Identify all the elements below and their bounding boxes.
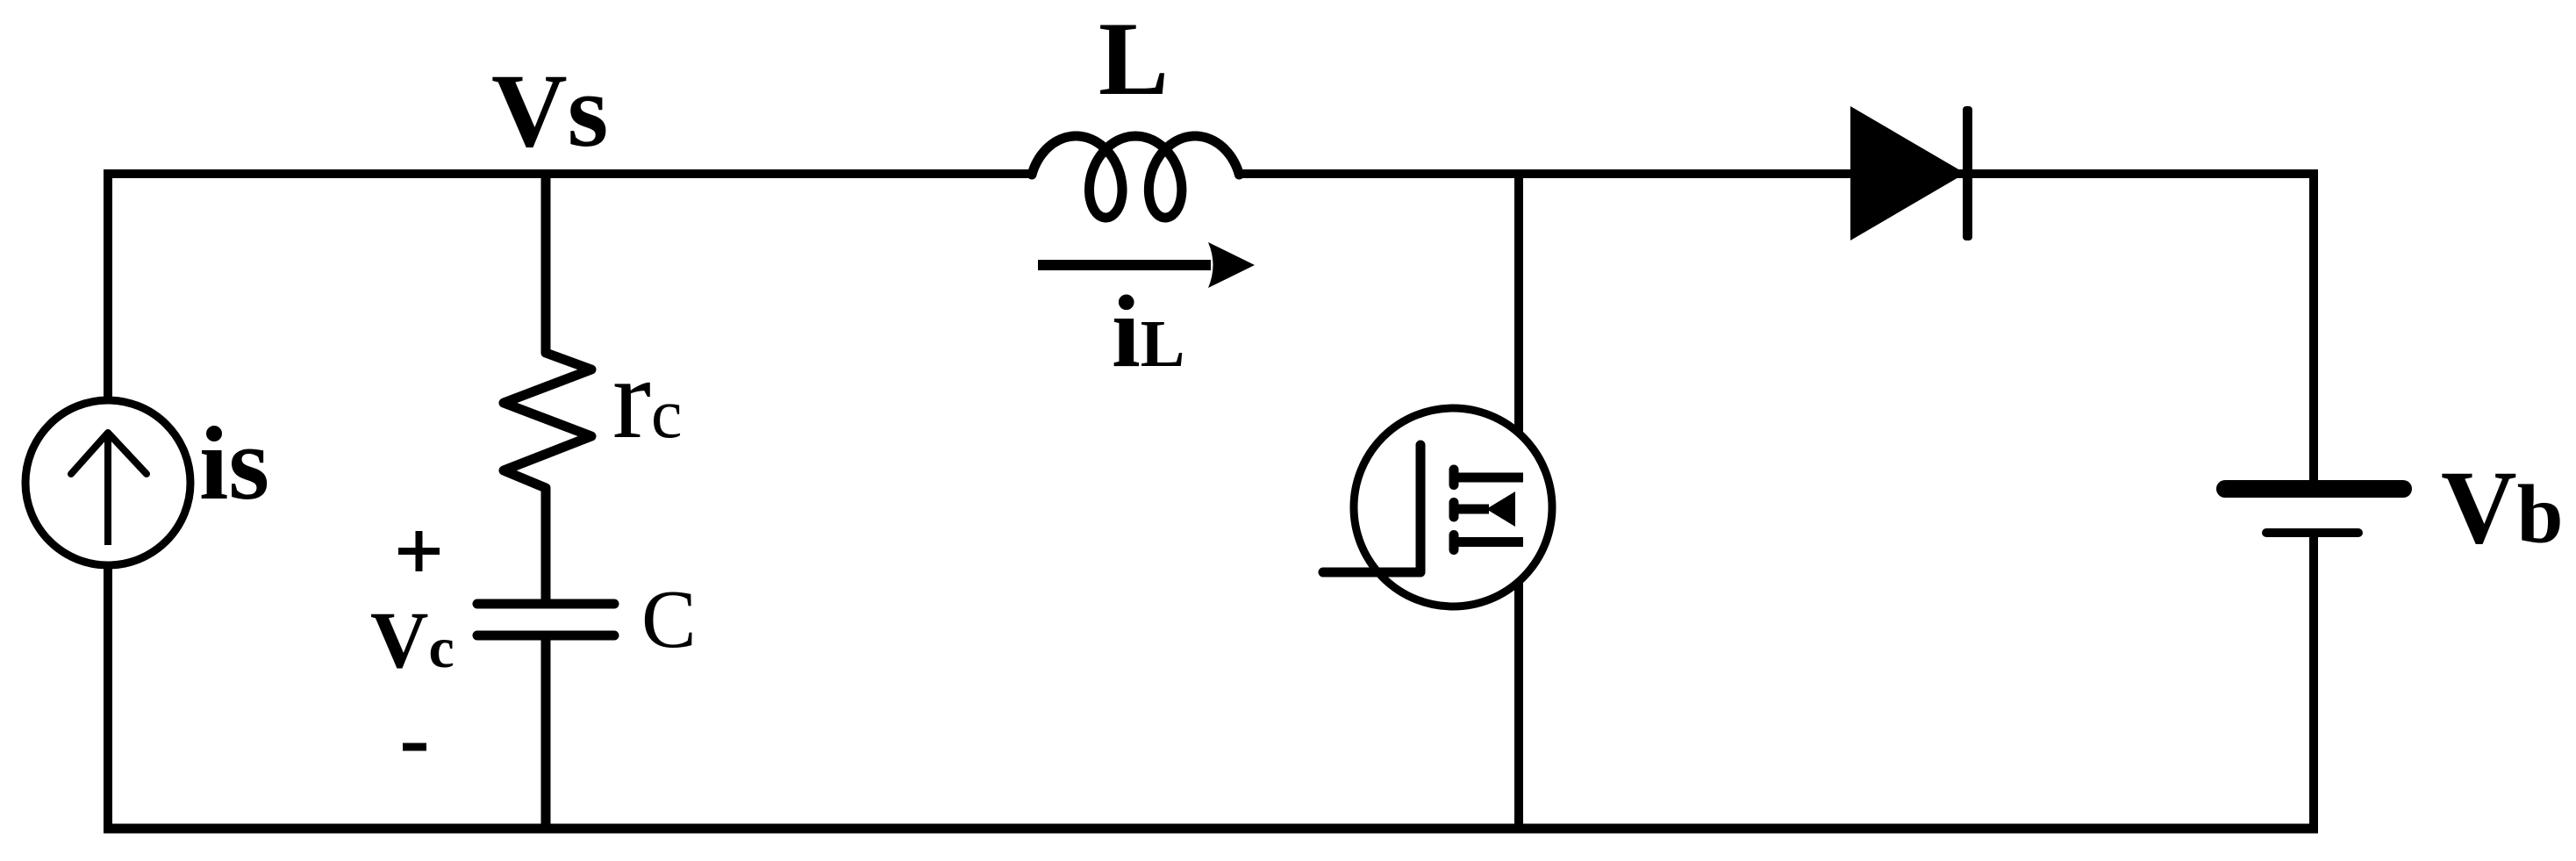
svg-text:Vs: Vs xyxy=(491,52,608,169)
minus sign of Vc xyxy=(403,743,426,751)
svg-text:C: C xyxy=(641,574,697,665)
iL arrowhead xyxy=(1208,242,1255,288)
wire MOSFET source vertical xyxy=(1514,492,1523,829)
MOSFET channel bar middle xyxy=(1449,503,1459,518)
MOSFET body-diode arrowhead xyxy=(1486,491,1515,527)
resistor rc zigzag xyxy=(504,349,591,491)
svg-text:is: is xyxy=(199,405,269,521)
wire resistor to capacitor xyxy=(541,488,551,600)
current source arrowhead chevron xyxy=(71,433,147,474)
wire capacitor to bottom rail xyxy=(541,635,551,829)
battery Vb positive plate xyxy=(2225,480,2403,498)
wire battery branch lower xyxy=(2309,535,2318,833)
capacitor C bottom plate xyxy=(477,631,614,641)
wire left branch lower xyxy=(104,562,112,833)
wire MOSFET drain vertical xyxy=(1514,174,1523,480)
diode D1 triangle xyxy=(1850,106,1965,240)
wire bottom rail xyxy=(104,824,2318,834)
wire left branch upper xyxy=(104,169,112,404)
current source arrow shaft xyxy=(104,436,111,545)
battery Vb negative plate xyxy=(2266,528,2358,537)
plus sign of Vc xyxy=(398,531,440,571)
diode D1 cathode bar xyxy=(1963,106,1972,240)
wire Vs branch upper xyxy=(541,174,551,351)
MOSFET channel bar bottom xyxy=(1449,535,1459,550)
capacitor C top plate xyxy=(477,599,614,609)
MOSFET channel bar top xyxy=(1449,470,1459,485)
MOSFET gate lead xyxy=(1323,445,1420,572)
inductor L coil xyxy=(1032,136,1239,218)
current source is (circle) xyxy=(25,400,190,565)
svg-text:L: L xyxy=(1098,0,1169,117)
MOSFET source lead xyxy=(1454,537,1523,547)
wire battery branch upper xyxy=(2309,169,2318,482)
iL current arrow shaft xyxy=(1038,260,1211,270)
wire top rail right xyxy=(1235,169,2318,178)
MOSFET drain lead xyxy=(1454,473,1523,483)
MOSFET body lead xyxy=(1454,505,1489,514)
MOSFET Q1 body circle xyxy=(1354,408,1552,606)
wire top rail left (node Vs rail) xyxy=(104,169,1035,178)
